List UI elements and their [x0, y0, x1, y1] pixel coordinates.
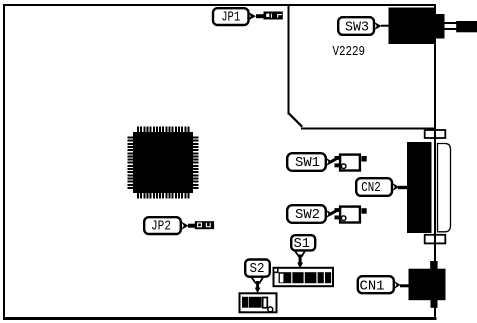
- JP2 pointer arrow: [181, 221, 189, 230]
- CN1 pointer arrow: [394, 281, 401, 290]
- S2 pointer arrow: [251, 277, 264, 294]
- jumper JP2 label box: [144, 217, 181, 234]
- JP1 pointer arrow: [248, 12, 256, 21]
- jumper JP2 component: [195, 221, 214, 229]
- CN2 D-shell: [438, 144, 451, 232]
- SW2 pointer arrow: [326, 210, 333, 219]
- DIP switch S1 body: [274, 268, 334, 286]
- IC chip body: [133, 132, 193, 193]
- jumper JP1 component: [264, 12, 283, 20]
- svg-text:S1: S1: [294, 236, 311, 252]
- SW2 pointer line: [330, 210, 338, 215]
- connector CN1 top tab: [430, 261, 437, 270]
- board notch chamfer edge: [287, 112, 303, 128]
- CN2 top mounting tab: [425, 130, 446, 138]
- CN2 pointer line: [398, 186, 408, 189]
- S2 corner circle mark: [268, 307, 273, 312]
- CN2 bracket line through tabs: [434, 128, 436, 245]
- connector CN1 bottom tab: [431, 300, 438, 308]
- SW3 bushing: [436, 14, 445, 39]
- svg-text:SW1: SW1: [295, 155, 320, 171]
- SW3 pointer line: [381, 25, 389, 27]
- svg-text:JP2: JP2: [151, 218, 171, 234]
- DIP switch S2 label box: [245, 260, 270, 278]
- SW1 pointer line: [330, 158, 338, 163]
- jumper JP1 label box: [213, 8, 249, 25]
- svg-text:SW3: SW3: [345, 19, 369, 35]
- board outline top edge: [3, 4, 436, 6]
- switch SW2 component: [335, 207, 367, 223]
- CN2 bottom mounting tab: [425, 235, 446, 244]
- SW3 shaft lines: [445, 23, 458, 29]
- switch SW2 label box: [287, 205, 326, 223]
- connector CN2 label box: [356, 178, 392, 196]
- board notch vertical edge: [288, 4, 290, 115]
- svg-text:CN1: CN1: [360, 279, 385, 295]
- IC chip bottom pins: [137, 193, 191, 199]
- CN2 pointer arrow: [392, 183, 399, 192]
- S2 switch blocks: [242, 297, 267, 308]
- switch SW1 component: [335, 155, 367, 171]
- switch SW3 label box: [338, 17, 374, 35]
- switch SW3 body: [389, 8, 437, 45]
- IC chip top pins: [137, 127, 191, 133]
- IC chip right pins: [193, 137, 199, 191]
- svg-text:JP1: JP1: [221, 9, 240, 25]
- svg-text:SW2: SW2: [295, 207, 320, 223]
- S1 switch block row: [279, 272, 332, 283]
- DIP switch S1 label box: [291, 235, 315, 252]
- connector CN1 label box: [358, 276, 394, 294]
- connector CN1 body: [409, 269, 446, 301]
- board notch horizontal edge: [301, 128, 436, 130]
- board outline bottom edge: [3, 317, 437, 320]
- IC chip left pins: [128, 137, 134, 191]
- JP2 pointer line: [188, 224, 195, 228]
- board outline right edge: [434, 4, 436, 318]
- DIP switch S2 body: [240, 293, 277, 312]
- board outline left edge: [3, 4, 5, 319]
- SW3 pointer arrow: [374, 22, 382, 31]
- svg-text:V2229: V2229: [333, 44, 366, 60]
- CN1 pointer line: [400, 284, 409, 287]
- svg-text:CN2: CN2: [361, 180, 381, 196]
- S1 pin1 corner mark: [274, 268, 278, 272]
- connector CN2 body: [407, 142, 432, 233]
- svg-text:S2: S2: [250, 261, 265, 277]
- JP1 pointer line: [256, 14, 264, 18]
- switch SW1 label box: [287, 153, 326, 171]
- S1 pointer arrow: [294, 251, 305, 269]
- SW3 knob: [456, 21, 477, 32]
- SW1 pointer arrow: [326, 158, 333, 167]
